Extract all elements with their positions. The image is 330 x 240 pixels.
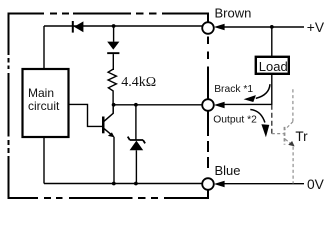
load box bbox=[256, 57, 289, 74]
node E junction zener-output bbox=[134, 103, 138, 107]
svg-text:Brack *1: Brack *1 bbox=[214, 84, 253, 95]
svg-text:+V: +V bbox=[307, 20, 325, 35]
enclosure border left bbox=[8, 13, 10, 200]
enclosure border right / terminal column bbox=[207, 14, 209, 199]
wire bottom 0V internal bbox=[44, 183, 203, 185]
wire load top bbox=[271, 27, 273, 57]
wire junction to diode D2 bbox=[113, 26, 115, 42]
zener diode D3 bbox=[128, 105, 145, 184]
enclosure border top bbox=[8, 13, 209, 15]
Tr emitter arrowhead bbox=[288, 141, 294, 146]
diode D1 reverse protection bbox=[72, 21, 84, 33]
svg-text:Output *2: Output *2 bbox=[213, 115, 257, 126]
svg-text:Blue: Blue bbox=[215, 163, 241, 178]
node C junction emitter-bottom bbox=[112, 182, 116, 186]
wire +V external bbox=[224, 26, 304, 28]
enclosure border bottom bbox=[8, 197, 209, 199]
wire 0V external bbox=[224, 183, 304, 185]
diode D2 vertical bbox=[107, 42, 119, 70]
wire top +V internal bbox=[44, 25, 203, 27]
main circuit box U1 bbox=[23, 69, 69, 137]
svg-text:Brown: Brown bbox=[215, 6, 252, 21]
resistor R1 4.4k bbox=[108, 69, 116, 105]
external transistor Tr dashed bbox=[272, 89, 293, 183]
svg-text:0V: 0V bbox=[307, 177, 325, 192]
terminal Black bbox=[202, 99, 214, 111]
terminal Brown bbox=[202, 22, 214, 34]
svg-text:Load: Load bbox=[259, 59, 288, 74]
node D junction zener-bottom bbox=[134, 182, 138, 186]
wire load bottom bbox=[225, 74, 272, 105]
callout arrow Brack bbox=[244, 84, 270, 102]
wire main circuit bottom bbox=[43, 137, 45, 184]
svg-text:4.4kΩ: 4.4kΩ bbox=[121, 75, 156, 90]
node B junction output-resistor bbox=[112, 103, 116, 107]
transistor Q1 bbox=[69, 104, 115, 183]
wire main circuit top bbox=[43, 26, 45, 69]
svg-text:circuit: circuit bbox=[28, 99, 60, 113]
node A junction top bbox=[112, 24, 116, 28]
callout arrow Output bbox=[250, 110, 269, 138]
node F junction load tap bbox=[270, 25, 274, 29]
wire output bbox=[114, 104, 203, 106]
svg-text:Tr: Tr bbox=[295, 129, 308, 144]
arrow into Blue bbox=[214, 181, 225, 187]
arrow into Brown bbox=[214, 24, 225, 30]
arrow into Black bbox=[214, 102, 225, 108]
terminal Blue bbox=[202, 178, 214, 190]
